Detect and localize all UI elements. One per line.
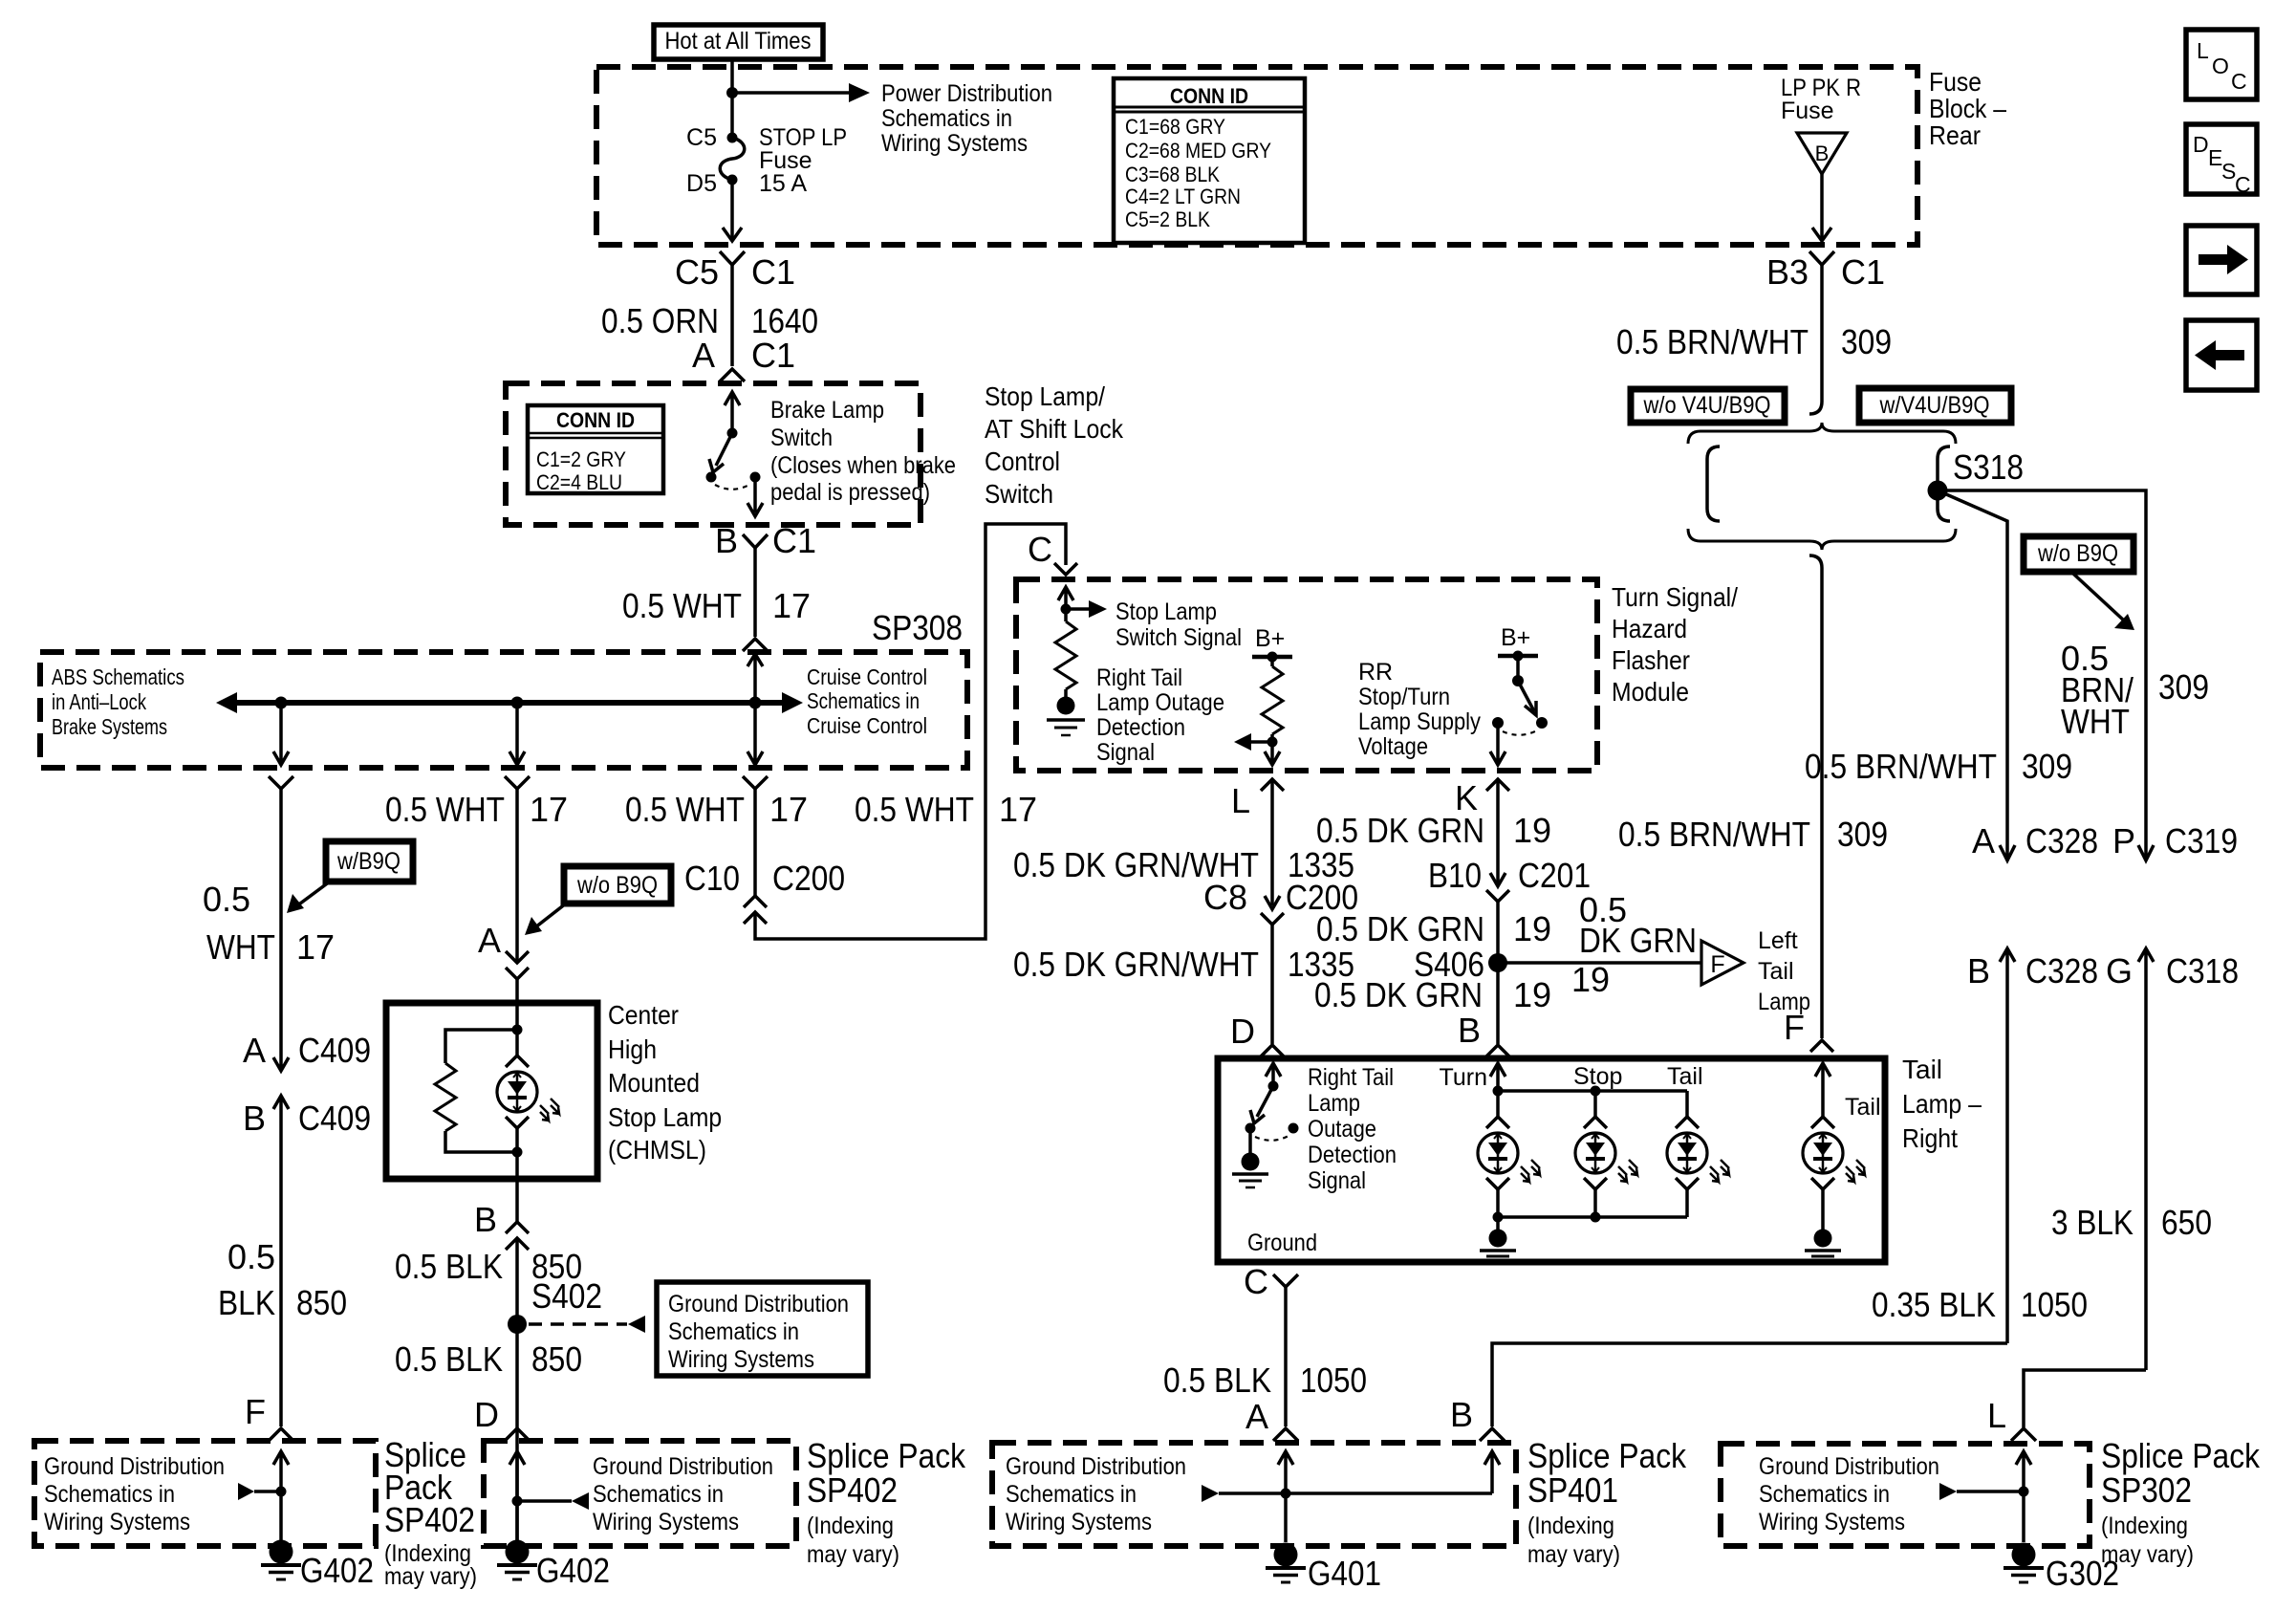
- svg-text:D: D: [1230, 1012, 1255, 1051]
- wire bus SP308: [235, 700, 784, 706]
- connector B/C1 chevron: [743, 534, 768, 548]
- svg-text:0.5 WHT: 0.5 WHT: [622, 586, 742, 625]
- svg-text:0.5 BRN/WHT: 0.5 BRN/WHT: [1616, 322, 1809, 361]
- brace lower: [1688, 529, 1956, 550]
- ground G302: [2004, 1543, 2044, 1583]
- pin entry arrow D: [509, 1451, 525, 1541]
- svg-text:Mounted: Mounted: [608, 1068, 700, 1098]
- svg-text:CONN ID: CONN ID: [1170, 84, 1248, 108]
- svg-text:C3=68 BLK: C3=68 BLK: [1125, 163, 1220, 186]
- wire to power distribution: [732, 91, 849, 95]
- svg-text:Turn: Turn: [1440, 1064, 1487, 1091]
- svg-text:L: L: [1987, 1396, 2006, 1435]
- ground lamps: [1496, 1217, 1500, 1230]
- svg-text:S402: S402: [531, 1276, 602, 1316]
- svg-text:17: 17: [296, 927, 335, 967]
- svg-text:0.5: 0.5: [227, 1237, 275, 1276]
- svg-text:Voltage: Voltage: [1358, 733, 1428, 760]
- svg-text:w/B9Q: w/B9Q: [336, 848, 401, 875]
- ABS cruise dashed box: [40, 652, 967, 768]
- svg-text:17: 17: [769, 790, 808, 829]
- svg-text:(Indexing: (Indexing: [2101, 1513, 2188, 1539]
- svg-text:B10: B10: [1428, 856, 1482, 895]
- svg-text:C200: C200: [772, 859, 845, 898]
- svg-text:A: A: [1245, 1397, 1268, 1436]
- svg-text:0.5 DK GRN/WHT: 0.5 DK GRN/WHT: [1013, 945, 1259, 984]
- lamp stop: [1593, 1091, 1597, 1117]
- svg-text:Splice Pack: Splice Pack: [1527, 1436, 1687, 1475]
- ground tail right lamp: [1805, 1230, 1841, 1257]
- svg-text:0.5 DK GRN: 0.5 DK GRN: [1314, 975, 1483, 1014]
- svg-text:Tail: Tail: [1902, 1055, 1942, 1084]
- svg-text:w/V4U/B9Q: w/V4U/B9Q: [1879, 392, 1990, 419]
- switch tail outage detection: [1245, 1081, 1299, 1141]
- svg-text:309: 309: [1837, 815, 1888, 854]
- wire LP PK R fuse output: [1820, 174, 1824, 241]
- svg-text:17: 17: [530, 790, 568, 829]
- svg-text:(Closes when brake: (Closes when brake: [770, 452, 956, 479]
- svg-text:B3: B3: [1766, 252, 1809, 292]
- svg-text:F: F: [245, 1392, 266, 1431]
- wire route C318-G to SP302: [2024, 1370, 2146, 1427]
- brace upper: [1688, 423, 1956, 444]
- svg-text:17: 17: [999, 790, 1037, 829]
- svg-text:D: D: [474, 1395, 499, 1434]
- option box w/o B9Q (CHMSL): [564, 866, 671, 903]
- svg-text:19: 19: [1513, 975, 1551, 1014]
- svg-text:3 BLK: 3 BLK: [2051, 1203, 2134, 1242]
- svg-text:L: L: [1231, 781, 1250, 820]
- svg-text:Stop Lamp/: Stop Lamp/: [985, 381, 1105, 411]
- svg-text:BLK: BLK: [218, 1283, 275, 1322]
- svg-text:Detection: Detection: [1308, 1142, 1397, 1168]
- svg-text:Lamp: Lamp: [1308, 1090, 1360, 1117]
- pin D entry arrow: [1266, 1063, 1281, 1086]
- CONN ID table fuse block: [1114, 78, 1305, 243]
- svg-text:Hazard: Hazard: [1612, 614, 1687, 643]
- svg-text:Outage: Outage: [1308, 1116, 1376, 1143]
- svg-text:D: D: [2193, 132, 2209, 157]
- svg-text:Detection: Detection: [1096, 714, 1185, 741]
- svg-text:Schematics in: Schematics in: [807, 688, 920, 713]
- svg-text:Splice Pack: Splice Pack: [2101, 1436, 2261, 1475]
- svg-text:309: 309: [1841, 322, 1892, 361]
- svg-text:Cruise Control: Cruise Control: [807, 713, 927, 738]
- svg-text:C5: C5: [686, 124, 717, 151]
- flasher module dashed box: [1016, 579, 1597, 771]
- svg-text:Wiring Systems: Wiring Systems: [1759, 1509, 1905, 1535]
- arrow reference right: [517, 1499, 572, 1503]
- svg-text:w/o B9Q: w/o B9Q: [576, 872, 658, 899]
- svg-text:(CHMSL): (CHMSL): [608, 1135, 706, 1165]
- svg-text:19: 19: [1513, 811, 1551, 850]
- svg-text:C5=2 BLK: C5=2 BLK: [1125, 207, 1210, 231]
- svg-text:B: B: [715, 521, 738, 560]
- pin K exit arrow: [1490, 723, 1505, 765]
- svg-text:Control: Control: [985, 446, 1060, 476]
- svg-text:Fuse: Fuse: [1781, 98, 1834, 124]
- connector stub w/o V4U/B9Q: [1707, 446, 1720, 521]
- ground G402 (center): [497, 1540, 537, 1580]
- svg-text:Right Tail: Right Tail: [1096, 664, 1182, 691]
- svg-text:Brake Lamp: Brake Lamp: [770, 397, 884, 424]
- svg-text:RR: RR: [1358, 659, 1393, 686]
- tail lamp right component box: [1218, 1058, 1885, 1262]
- dashed reference arrow S402: [529, 1322, 627, 1326]
- pin entry arrow B: [1484, 1451, 1500, 1493]
- wire lamp feed bus: [1498, 1089, 1687, 1093]
- wire left branch lower: [279, 1140, 283, 1426]
- svg-text:O: O: [2212, 54, 2229, 78]
- connector F left tail lamp triangle: [1701, 927, 1810, 1015]
- fuse LP PK R: [1781, 75, 1861, 174]
- svg-text:0.5 BLK: 0.5 BLK: [1163, 1361, 1271, 1400]
- svg-text:850: 850: [531, 1339, 582, 1379]
- pin entry arrow F: [273, 1451, 289, 1541]
- icon DESC: [2186, 124, 2257, 197]
- bus tap right wire: [747, 703, 763, 765]
- svg-text:1050: 1050: [1300, 1361, 1367, 1400]
- svg-text:B: B: [474, 1200, 497, 1239]
- svg-text:SP308: SP308: [872, 608, 963, 647]
- pin entry arrow L: [2016, 1451, 2031, 1542]
- connector chevron below pin L: [1261, 779, 1284, 791]
- svg-text:DK GRN: DK GRN: [1579, 921, 1697, 960]
- svg-text:C2=68 MED GRY: C2=68 MED GRY: [1125, 139, 1271, 163]
- svg-text:Block –: Block –: [1929, 94, 2006, 123]
- bus tap center wire: [509, 703, 525, 765]
- svg-text:G401: G401: [1308, 1554, 1381, 1593]
- svg-text:Flasher: Flasher: [1612, 645, 1690, 675]
- svg-text:G402: G402: [536, 1551, 610, 1590]
- option box w/o B9Q: [2024, 536, 2134, 572]
- wire from Hot at All Times to fuse: [730, 59, 734, 135]
- svg-text:B: B: [243, 1099, 266, 1138]
- arrow w/o B9Q callout: [535, 903, 566, 927]
- stop lamp / AT shift lock control switch dashed box: [506, 383, 921, 525]
- resistor CHMSL: [445, 1030, 517, 1063]
- svg-text:Schematics in: Schematics in: [44, 1481, 175, 1508]
- svg-text:Switch: Switch: [985, 479, 1053, 509]
- splice pack SP402 dashed box (center): [484, 1441, 796, 1546]
- svg-text:Stop/Turn: Stop/Turn: [1358, 684, 1450, 710]
- node Hot at All Times: [654, 25, 823, 59]
- switch hazard/stop turn: [1492, 656, 1548, 735]
- wire right branch to C200: [753, 789, 757, 896]
- svg-text:Schematics in: Schematics in: [1759, 1481, 1890, 1508]
- svg-text:C: C: [2235, 172, 2251, 197]
- svg-text:Ground Distribution: Ground Distribution: [668, 1291, 849, 1317]
- svg-text:17: 17: [772, 586, 811, 625]
- pin entry arrow from brake switch: [747, 654, 763, 703]
- junction: [1267, 737, 1278, 748]
- svg-text:A: A: [478, 921, 501, 960]
- option box w/o V4U/B9Q: [1631, 389, 1785, 423]
- svg-text:in Anti–Lock: in Anti–Lock: [52, 689, 146, 714]
- svg-text:(Indexing: (Indexing: [1527, 1513, 1614, 1539]
- pin C entry arrow: [1058, 587, 1073, 621]
- svg-text:Lamp Supply: Lamp Supply: [1358, 708, 1481, 735]
- svg-text:C1: C1: [751, 336, 795, 375]
- lamp tail right: [1803, 1117, 1865, 1189]
- arrow w/o B9Q callout: [2073, 574, 2124, 620]
- svg-text:Power Distribution: Power Distribution: [881, 80, 1052, 107]
- svg-text:Hot at All Times: Hot at All Times: [665, 28, 812, 54]
- wire hook below brace: [1809, 555, 1822, 568]
- wire switch output: [747, 477, 763, 516]
- svg-text:C: C: [2231, 69, 2247, 94]
- svg-text:0.5 WHT: 0.5 WHT: [625, 790, 745, 829]
- svg-text:SP401: SP401: [1527, 1470, 1618, 1510]
- splice pack SP302 dashed box: [1721, 1444, 2090, 1546]
- svg-text:F: F: [1710, 951, 1724, 978]
- svg-text:Stop Lamp: Stop Lamp: [608, 1102, 722, 1132]
- wire left branch: [279, 789, 283, 1031]
- svg-text:S318: S318: [1953, 447, 2024, 487]
- connector chevrons below cruise box: [269, 776, 293, 789]
- svg-text:1640: 1640: [751, 301, 818, 340]
- svg-text:Wiring Systems: Wiring Systems: [1006, 1509, 1152, 1535]
- svg-text:0.5 DK GRN: 0.5 DK GRN: [1316, 811, 1484, 850]
- arrow feedback left: [1251, 740, 1272, 744]
- arrow reference left: [254, 1490, 281, 1493]
- connector pin A entry arrow: [725, 392, 740, 433]
- svg-text:1050: 1050: [2021, 1285, 2088, 1324]
- svg-text:(Indexing: (Indexing: [807, 1513, 894, 1539]
- lamp turn: [1496, 1091, 1500, 1117]
- svg-text:Splice Pack: Splice Pack: [807, 1436, 966, 1475]
- svg-text:Module: Module: [1612, 677, 1689, 707]
- wire CHMSL output: [515, 1152, 519, 1222]
- ground G401: [1266, 1543, 1306, 1583]
- junction: [512, 1496, 523, 1507]
- svg-text:Signal: Signal: [1308, 1167, 1366, 1194]
- wire center branch: [515, 789, 519, 963]
- wire fuse output: [730, 180, 734, 241]
- svg-text:C8: C8: [1203, 878, 1247, 917]
- ground outage switch: [1248, 1128, 1252, 1153]
- svg-text:Switch Signal: Switch Signal: [1116, 624, 1242, 651]
- svg-text:G: G: [2106, 951, 2133, 991]
- svg-text:F: F: [1784, 1008, 1805, 1047]
- svg-text:Wiring Systems: Wiring Systems: [593, 1509, 739, 1535]
- svg-text:may vary): may vary): [384, 1563, 477, 1590]
- svg-text:C: C: [1244, 1262, 1268, 1301]
- svg-text:C5: C5: [675, 252, 719, 292]
- svg-text:CONN ID: CONN ID: [556, 408, 635, 432]
- svg-text:C1=68 GRY: C1=68 GRY: [1125, 115, 1225, 139]
- icon LOC: [2186, 30, 2257, 99]
- splice pack SP401 dashed box: [992, 1443, 1516, 1546]
- svg-text:C318: C318: [2166, 951, 2239, 991]
- svg-text:Brake Systems: Brake Systems: [52, 714, 167, 739]
- ground flasher internal: [1047, 697, 1085, 736]
- svg-text:0.35 BLK: 0.35 BLK: [1872, 1285, 1996, 1324]
- resistor stop/turn supply: [1270, 657, 1274, 666]
- wire splice bus SP302: [1957, 1490, 2024, 1493]
- svg-text:C1: C1: [772, 521, 816, 560]
- svg-text:Left: Left: [1758, 927, 1798, 954]
- wire splice bus SP401: [1219, 1491, 1492, 1495]
- CHMSL component box: [386, 1003, 597, 1179]
- svg-text:w/o B9Q: w/o B9Q: [2037, 540, 2118, 567]
- svg-text:Ground: Ground: [1247, 1230, 1317, 1256]
- ground G402 (left): [261, 1540, 301, 1580]
- connector chevron below pin K: [1486, 779, 1509, 791]
- svg-text:A: A: [692, 336, 715, 375]
- junction: [1061, 604, 1072, 615]
- svg-text:Lamp –: Lamp –: [1902, 1089, 1982, 1119]
- svg-text:P: P: [2112, 821, 2135, 860]
- box ground distribution reference (solid): [657, 1282, 868, 1376]
- connector chevron above cruise box: [743, 639, 768, 651]
- icon arrow right: [2186, 226, 2257, 294]
- svg-text:C1=2 GRY: C1=2 GRY: [536, 447, 626, 471]
- svg-text:C1: C1: [751, 252, 795, 292]
- svg-text:19: 19: [1571, 960, 1610, 999]
- svg-text:B: B: [1458, 1011, 1481, 1050]
- svg-text:Ground Distribution: Ground Distribution: [1006, 1453, 1186, 1480]
- lamp tail: [1685, 1091, 1689, 1117]
- svg-text:WHT: WHT: [206, 927, 275, 967]
- wire branch to left tail lamp: [1498, 961, 1701, 965]
- svg-text:19: 19: [1513, 909, 1551, 948]
- svg-text:0.5 WHT: 0.5 WHT: [855, 790, 974, 829]
- arrow w/B9Q callout: [296, 882, 330, 906]
- svg-text:Tail: Tail: [1845, 1094, 1881, 1121]
- svg-text:C409: C409: [298, 1099, 371, 1138]
- splice pack SP402 dashed box (left): [34, 1441, 376, 1546]
- svg-text:SP402: SP402: [384, 1500, 475, 1539]
- svg-text:Rear: Rear: [1929, 120, 1981, 150]
- connector C5/C1 chevron: [720, 251, 745, 265]
- svg-text:15 A: 15 A: [759, 170, 807, 197]
- wire lamp ground bus: [1498, 1215, 1687, 1219]
- svg-text:Center: Center: [608, 1000, 679, 1030]
- svg-text:G402: G402: [300, 1551, 374, 1590]
- wire hook above brace: [1809, 402, 1822, 414]
- svg-text:850: 850: [296, 1283, 347, 1322]
- arrow reference SP302: [1939, 1483, 1957, 1500]
- svg-text:SP302: SP302: [2101, 1470, 2192, 1510]
- svg-text:0.5: 0.5: [203, 880, 250, 919]
- svg-text:0.5 DK GRN: 0.5 DK GRN: [1316, 909, 1484, 948]
- pin entry arrow A: [1278, 1451, 1293, 1542]
- svg-text:0.5 BRN/WHT: 0.5 BRN/WHT: [1618, 815, 1810, 854]
- svg-text:Right: Right: [1902, 1123, 1958, 1153]
- arrow reference SP401: [1202, 1485, 1219, 1502]
- junction: [1281, 1489, 1291, 1499]
- svg-text:A: A: [243, 1031, 266, 1070]
- CONN ID table brake switch: [528, 405, 663, 494]
- wire route to pin C: [755, 524, 1066, 939]
- svg-text:Ground Distribution: Ground Distribution: [1759, 1453, 1939, 1480]
- svg-text:Lamp Outage: Lamp Outage: [1096, 689, 1224, 716]
- svg-text:w/o V4U/B9Q: w/o V4U/B9Q: [1643, 392, 1771, 419]
- option box w/B9Q: [326, 841, 413, 882]
- arrow stop lamp switch signal: [1066, 607, 1089, 611]
- svg-text:0.5 BLK: 0.5 BLK: [395, 1339, 503, 1379]
- svg-text:C1: C1: [1841, 252, 1885, 292]
- svg-text:Fuse: Fuse: [1929, 67, 1982, 97]
- svg-text:Signal: Signal: [1096, 739, 1155, 766]
- svg-text:Wiring Systems: Wiring Systems: [668, 1346, 814, 1373]
- svg-text:AT Shift Lock: AT Shift Lock: [985, 414, 1124, 444]
- svg-text:C319: C319: [2165, 821, 2238, 860]
- svg-text:SP402: SP402: [807, 1470, 898, 1510]
- svg-text:C409: C409: [298, 1031, 371, 1070]
- fuse block rear dashed box: [596, 67, 1917, 245]
- svg-text:Tail: Tail: [1758, 958, 1794, 985]
- wire S318 branch right: [1938, 490, 2154, 860]
- svg-text:Schematics in: Schematics in: [593, 1481, 724, 1508]
- icon arrow left: [2186, 320, 2257, 390]
- resistor outage detection: [1055, 621, 1076, 689]
- svg-text:0.5 BRN/WHT: 0.5 BRN/WHT: [1805, 747, 1997, 786]
- svg-text:Schematics in: Schematics in: [1006, 1481, 1137, 1508]
- svg-text:B+: B+: [1255, 625, 1285, 652]
- svg-text:may vary): may vary): [2101, 1541, 2194, 1568]
- bus tap left wire: [273, 703, 289, 765]
- wire route C328-B to SP401: [1492, 1343, 2007, 1426]
- svg-text:C201: C201: [1518, 856, 1591, 895]
- option box w/V4U/B9Q: [1859, 388, 2011, 423]
- svg-text:Schematics in: Schematics in: [881, 105, 1012, 132]
- junction: [726, 87, 738, 98]
- svg-text:C: C: [1028, 530, 1052, 569]
- svg-text:A: A: [1972, 821, 1995, 860]
- svg-text:309: 309: [2022, 747, 2072, 786]
- svg-text:Stop: Stop: [1573, 1063, 1622, 1090]
- svg-text:B: B: [1450, 1395, 1473, 1434]
- connector B3/C1 chevron: [1809, 251, 1834, 265]
- svg-text:C4=2 LT GRN: C4=2 LT GRN: [1125, 185, 1241, 208]
- fuse STOP LP 15A: [686, 124, 847, 197]
- svg-text:may vary): may vary): [807, 1541, 899, 1568]
- junction: [276, 1487, 287, 1497]
- svg-text:B: B: [1967, 951, 1990, 991]
- lamp CHMSL: [515, 1030, 519, 1056]
- svg-text:C328: C328: [2025, 951, 2098, 991]
- svg-text:650: 650: [2161, 1203, 2212, 1242]
- svg-text:C328: C328: [2025, 821, 2098, 860]
- svg-text:pedal is pressed): pedal is pressed): [770, 479, 930, 506]
- svg-text:Wiring Systems: Wiring Systems: [881, 130, 1028, 157]
- svg-text:Wiring Systems: Wiring Systems: [44, 1509, 190, 1535]
- svg-text:High: High: [608, 1034, 657, 1064]
- svg-text:Tail: Tail: [1667, 1063, 1703, 1090]
- svg-text:Ground Distribution: Ground Distribution: [44, 1453, 225, 1480]
- wire S318 branch diagonal: [1938, 490, 2015, 860]
- pin F entry arrow: [1815, 1063, 1830, 1117]
- pin L exit arrow: [1265, 742, 1280, 765]
- svg-text:Stop Lamp: Stop Lamp: [1116, 599, 1217, 625]
- svg-text:L: L: [2197, 38, 2209, 63]
- svg-text:Ground Distribution: Ground Distribution: [593, 1453, 773, 1480]
- junction top: [512, 1025, 523, 1035]
- svg-text:Cruise Control: Cruise Control: [807, 664, 927, 689]
- pin B entry arrow: [1490, 1063, 1505, 1091]
- svg-text:Right Tail: Right Tail: [1308, 1064, 1394, 1091]
- junction bottom: [512, 1147, 523, 1158]
- svg-text:C2=4 BLU: C2=4 BLU: [536, 470, 622, 494]
- svg-text:0.5 WHT: 0.5 WHT: [385, 790, 505, 829]
- svg-text:Switch: Switch: [770, 425, 833, 451]
- svg-text:Schematics in: Schematics in: [668, 1318, 799, 1345]
- svg-text:may vary): may vary): [1527, 1541, 1620, 1568]
- connector stub w/V4U/B9Q: [1938, 446, 1950, 521]
- svg-text:B+: B+: [1501, 624, 1530, 651]
